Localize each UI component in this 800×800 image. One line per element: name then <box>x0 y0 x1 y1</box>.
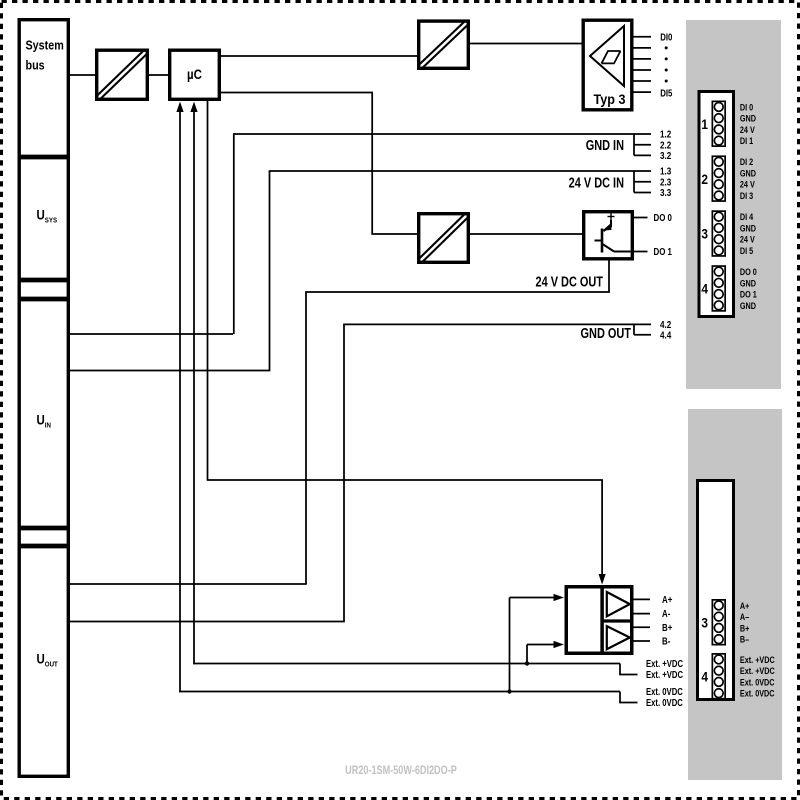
svg-text:DI 1: DI 1 <box>740 135 754 146</box>
svg-text:2: 2 <box>701 171 708 187</box>
svg-text:DI 0: DI 0 <box>740 101 754 112</box>
svg-text:Ext. 0VDC: Ext. 0VDC <box>740 688 775 699</box>
svg-text:GND IN: GND IN <box>586 136 624 153</box>
svg-text:2.2: 2.2 <box>660 140 671 151</box>
svg-text:DI0: DI0 <box>660 32 672 43</box>
svg-text:µC: µC <box>187 67 202 82</box>
svg-text:DI5: DI5 <box>660 88 672 99</box>
svg-text:DI 4: DI 4 <box>740 211 754 222</box>
svg-text:DO 0: DO 0 <box>654 212 672 223</box>
svg-text:A+: A+ <box>740 600 750 611</box>
svg-text:1.3: 1.3 <box>660 166 671 177</box>
svg-text:24 V DC OUT: 24 V DC OUT <box>535 273 603 290</box>
svg-text:Ext. +VDC: Ext. +VDC <box>740 665 775 676</box>
svg-text:3: 3 <box>701 226 708 242</box>
svg-text:24 V: 24 V <box>740 179 755 190</box>
svg-text:DO 1: DO 1 <box>654 246 672 257</box>
svg-text:24 V DC IN: 24 V DC IN <box>569 174 624 191</box>
svg-text:1: 1 <box>701 116 708 132</box>
svg-text:B–: B– <box>740 634 750 645</box>
svg-text:Ext. 0VDC: Ext. 0VDC <box>646 686 683 697</box>
svg-text:GND: GND <box>740 113 756 124</box>
svg-text:DI 3: DI 3 <box>740 190 754 201</box>
svg-text:B+: B+ <box>740 622 750 633</box>
svg-text:B-: B- <box>662 636 670 647</box>
svg-text:DO 1: DO 1 <box>740 289 757 300</box>
svg-text:DO 0: DO 0 <box>740 266 757 277</box>
svg-text:4: 4 <box>701 281 708 297</box>
svg-text:4.2: 4.2 <box>660 319 671 330</box>
svg-text:Ext. +VDC: Ext. +VDC <box>646 658 684 669</box>
svg-text:A–: A– <box>740 611 750 622</box>
svg-text:GND OUT: GND OUT <box>581 324 631 341</box>
svg-text:GND: GND <box>740 277 756 288</box>
svg-text:3.3: 3.3 <box>660 187 671 198</box>
svg-text:UR20-1SM-50W-6DI2DO-P: UR20-1SM-50W-6DI2DO-P <box>345 764 457 778</box>
svg-text:GND: GND <box>740 168 756 179</box>
svg-text:DI 2: DI 2 <box>740 156 754 167</box>
svg-text:24 V: 24 V <box>740 234 755 245</box>
svg-text:B+: B+ <box>662 622 672 633</box>
svg-text:2.3: 2.3 <box>660 177 671 188</box>
svg-text:A+: A+ <box>662 594 672 605</box>
svg-text:GND: GND <box>740 222 756 233</box>
svg-text:bus: bus <box>26 57 45 72</box>
svg-text:24 V: 24 V <box>740 124 755 135</box>
svg-text:Ext. +VDC: Ext. +VDC <box>740 654 775 665</box>
svg-text:GND: GND <box>740 300 756 311</box>
svg-text:Ext. 0VDC: Ext. 0VDC <box>740 676 775 687</box>
svg-text:1.2: 1.2 <box>660 129 671 140</box>
svg-text:Ext. 0VDC: Ext. 0VDC <box>646 697 683 708</box>
svg-text:Ext. +VDC: Ext. +VDC <box>646 669 684 680</box>
svg-text:Typ 3: Typ 3 <box>594 91 626 107</box>
svg-text:3.2: 3.2 <box>660 150 671 161</box>
svg-text:4.4: 4.4 <box>660 330 671 341</box>
svg-text:System: System <box>26 37 64 52</box>
svg-text:4: 4 <box>701 668 708 684</box>
svg-text:3: 3 <box>701 614 708 630</box>
svg-text:DI 5: DI 5 <box>740 245 754 256</box>
svg-text:A-: A- <box>662 608 670 619</box>
